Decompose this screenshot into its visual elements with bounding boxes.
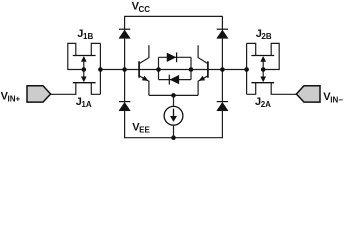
wire emitter rail	[149, 94, 198, 96]
jfet J1B left lead to gate node	[68, 43, 84, 69]
jfet J2A right lead + wire to VIN- tag	[271, 83, 297, 95]
jfet J2A left lead	[247, 83, 256, 95]
jfet J2B left lead	[247, 43, 256, 55]
wire current source to VEE rail	[173, 125, 175, 138]
input tag VIN+	[27, 86, 51, 102]
current source I1	[164, 106, 183, 125]
transistor Q2 collector	[198, 45, 207, 63]
node clamp right	[189, 67, 194, 72]
wire left base net	[100, 69, 246, 71]
transistor Q1 base bar	[138, 61, 140, 77]
wire J2 drain column	[246, 43, 248, 94]
transistor Q1 emitter arrow	[142, 76, 148, 81]
input tag VIN-	[296, 86, 320, 102]
jfet J2A channel bar	[251, 82, 274, 84]
wire VCC to diode D1	[124, 16, 126, 30]
wire VCC to diode D3	[221, 16, 223, 30]
jfet J2A gate arrow	[261, 77, 266, 82]
diode D4 (VEE to right input)	[217, 102, 228, 110]
node J2 gates	[261, 67, 266, 72]
transistor Q1 emitter	[140, 76, 149, 95]
node clamp left	[156, 67, 161, 72]
current source I1 arrow	[173, 109, 175, 117]
transistor Q1 collector	[140, 45, 149, 63]
transistor Q2 emitter	[198, 76, 207, 95]
jfet J1B right lead	[91, 43, 100, 55]
wire clamp loop left	[158, 57, 160, 79]
wire D1 to node A	[124, 38, 126, 102]
jfet J1A channel bar	[73, 82, 96, 84]
wire clamp loop right	[190, 57, 192, 79]
VEE rail	[124, 137, 223, 139]
VCC rail	[125, 15, 223, 17]
jfet J1A left lead + wire to VIN+ tag	[50, 83, 76, 95]
node right input net at D3/D4	[220, 67, 225, 72]
wire J1 drain column	[99, 43, 101, 94]
node J1 drain junction	[98, 67, 103, 72]
jfet J2B gate arrow	[261, 57, 266, 62]
diode D5 (left base to right base)	[167, 53, 176, 62]
jfet J1A right lead	[91, 83, 100, 95]
jfet J1A gate arrow	[81, 77, 86, 82]
node emitter rail centre	[171, 93, 176, 98]
transistor Q2 base bar	[207, 61, 209, 77]
gate line J1	[83, 61, 85, 78]
jfet J1B channel bar	[73, 55, 96, 57]
node J2 drain junction	[244, 67, 249, 72]
gate line J2	[262, 61, 264, 78]
node VEE rail centre	[171, 135, 176, 140]
diode D3 (right input to VCC)	[217, 30, 228, 38]
diode D1 (left input to VCC)	[119, 30, 130, 38]
diode D6 (right base to left base)	[170, 75, 179, 84]
diode D2 (VEE to left input)	[119, 102, 130, 110]
jfet J2B channel bar	[251, 55, 274, 57]
wire D2 to VEE rail	[124, 111, 126, 138]
wire clamp loop top	[159, 56, 192, 58]
transistor Q2 emitter arrow	[199, 76, 205, 81]
wire D3 to node B	[221, 38, 223, 102]
wire emitters to current source	[173, 95, 175, 106]
jfet J1B gate arrow	[81, 57, 86, 62]
node left input net at D1/D2	[122, 67, 127, 72]
node J1 gates	[82, 67, 87, 72]
wire D4 to VEE rail	[221, 111, 223, 138]
jfet J2B right lead to gate node	[263, 43, 279, 69]
wire clamp loop bottom	[159, 79, 192, 81]
